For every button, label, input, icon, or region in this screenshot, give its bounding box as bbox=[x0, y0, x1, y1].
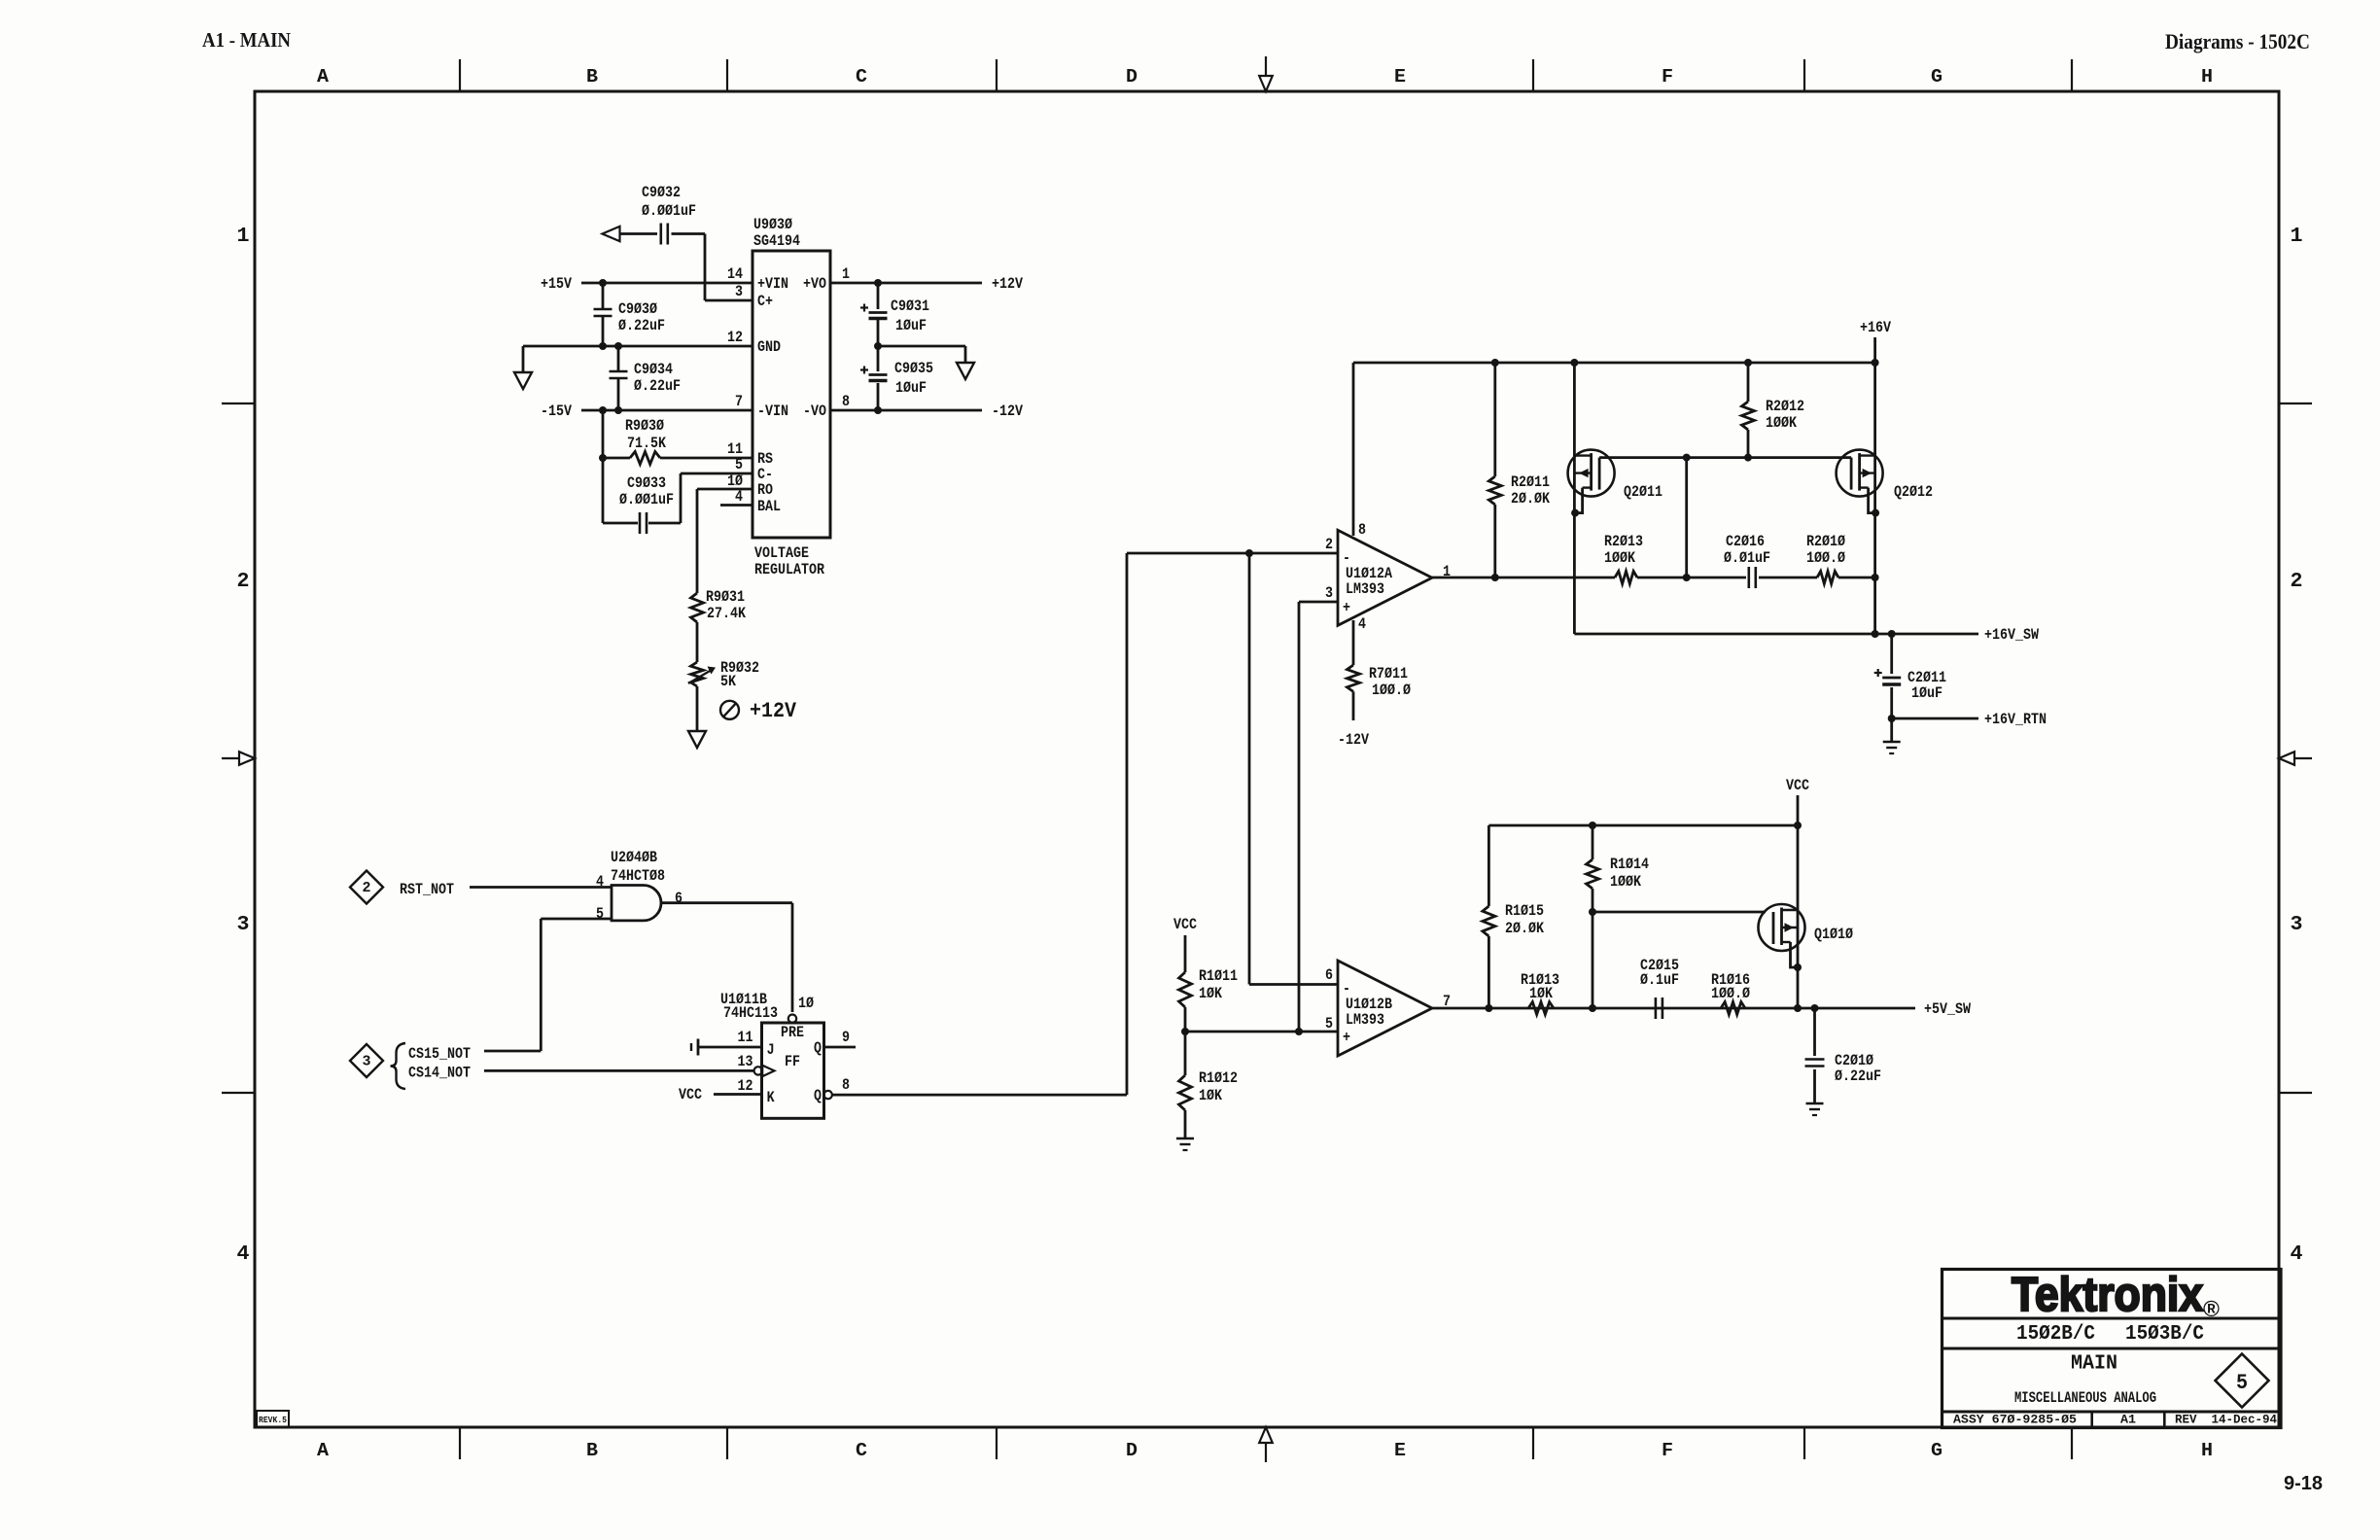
svg-text:1ØØ.Ø: 1ØØ.Ø bbox=[1711, 985, 1750, 1002]
node GND / C9030 bbox=[599, 342, 607, 350]
off-sheet diamond 2 bbox=[350, 871, 383, 904]
wire +5V top rail bbox=[1488, 825, 1798, 906]
svg-text:5: 5 bbox=[1325, 1015, 1333, 1032]
flip-flop U1011B 74HC113 bbox=[720, 991, 824, 1118]
svg-text:A: A bbox=[317, 1440, 330, 1461]
svg-text:-VIN: -VIN bbox=[757, 402, 788, 420]
fold arrow bottom bbox=[1259, 1427, 1273, 1462]
svg-text:8: 8 bbox=[1358, 521, 1366, 539]
capacitor C2010 0.22uF bbox=[1805, 1008, 1882, 1103]
comparator U1012B LM393 bbox=[1338, 961, 1432, 1056]
node gate R1014 bbox=[1589, 908, 1596, 916]
and gate U2040B 74HCT08 bbox=[611, 849, 665, 921]
svg-text:Ø.22uF: Ø.22uF bbox=[1835, 1067, 1881, 1085]
svg-text:Q2Ø11: Q2Ø11 bbox=[1624, 483, 1662, 501]
sheet number diamond 5 bbox=[2216, 1354, 2269, 1408]
svg-text:-: - bbox=[1343, 549, 1350, 567]
wire BAL stub bbox=[720, 504, 752, 507]
svg-text:9-18: 9-18 bbox=[2284, 1473, 2323, 1494]
resistor R1013 10K bbox=[1521, 971, 1559, 1015]
svg-text:-15V: -15V bbox=[541, 402, 572, 420]
svg-text:C: C bbox=[856, 1440, 867, 1461]
svg-text:+12V: +12V bbox=[992, 275, 1023, 293]
capacitor C9031 10uF electrolytic bbox=[860, 283, 929, 346]
svg-text:REVK.5: REVK.5 bbox=[259, 1416, 287, 1425]
node rail Q1010 bbox=[1794, 1004, 1802, 1012]
Tektronix logo bbox=[2012, 1269, 2220, 1321]
svg-text:D: D bbox=[1126, 1440, 1137, 1461]
ground symbol right bbox=[957, 363, 974, 379]
svg-text:13: 13 bbox=[738, 1053, 753, 1070]
svg-text:-12V: -12V bbox=[992, 402, 1023, 420]
svg-text:Diagrams - 1502C: Diagrams - 1502C bbox=[2165, 29, 2310, 53]
svg-text:1ØØK: 1ØØK bbox=[1604, 549, 1635, 567]
svg-text:J: J bbox=[767, 1041, 775, 1059]
fold arrow top bbox=[1259, 56, 1273, 91]
resistor R9031 27.4K bbox=[691, 588, 747, 662]
svg-text:C2Ø16: C2Ø16 bbox=[1726, 533, 1765, 550]
ground symbol left bbox=[514, 372, 532, 389]
svg-text:A1 - MAIN: A1 - MAIN bbox=[202, 28, 291, 52]
svg-text:1ØuF: 1ØuF bbox=[895, 379, 927, 397]
svg-text:2Ø.ØK: 2Ø.ØK bbox=[1505, 920, 1544, 937]
node +16V_SW / C2011 bbox=[1888, 630, 1896, 638]
svg-text:1: 1 bbox=[2291, 226, 2303, 248]
net CS14_NOT bbox=[408, 1065, 754, 1082]
svg-text:+16V_RTN: +16V_RTN bbox=[1984, 711, 2047, 728]
capacitor C9034 0.22uF bbox=[610, 346, 682, 410]
svg-text:2: 2 bbox=[1325, 536, 1333, 553]
net -15V bbox=[541, 402, 752, 420]
node rail R1015 bbox=[1485, 1004, 1492, 1012]
svg-text:3: 3 bbox=[1325, 584, 1333, 602]
potentiometer R9032 5K bbox=[688, 659, 759, 731]
svg-text:Ø.ØØ1uF: Ø.ØØ1uF bbox=[642, 202, 696, 220]
svg-text:R1Ø14: R1Ø14 bbox=[1610, 856, 1649, 873]
resistor R9030 71.5K bbox=[625, 417, 666, 465]
wire Q2012 vertical bbox=[1873, 363, 1876, 634]
signal ground below R1012 bbox=[1176, 1137, 1194, 1140]
svg-text:Q2Ø12: Q2Ø12 bbox=[1894, 483, 1933, 501]
svg-text:Ø.ØØ1uF: Ø.ØØ1uF bbox=[619, 491, 674, 508]
net +15V bbox=[541, 275, 752, 293]
capacitor C9035 10uF electrolytic bbox=[860, 346, 933, 410]
svg-text:VCC: VCC bbox=[679, 1086, 702, 1103]
node output riser bbox=[1683, 574, 1691, 581]
clock bubble bbox=[754, 1067, 762, 1074]
svg-text:+16V: +16V bbox=[1860, 319, 1891, 336]
wire Q2011 drain-source vertical bbox=[1573, 363, 1576, 634]
svg-text:K: K bbox=[767, 1089, 775, 1106]
svg-text:R9Ø31: R9Ø31 bbox=[706, 588, 745, 606]
wire gate Q1010 bbox=[1592, 911, 1766, 914]
svg-text:R1Ø15: R1Ø15 bbox=[1505, 902, 1544, 920]
capacitor C2016 0.01uF bbox=[1724, 533, 1817, 588]
wire GND rail left bbox=[523, 346, 752, 372]
svg-text:G: G bbox=[1931, 66, 1942, 87]
svg-text:C9Ø35: C9Ø35 bbox=[894, 360, 933, 377]
node -12V / C9035 bbox=[874, 406, 882, 414]
svg-text:1ØØK: 1ØØK bbox=[1610, 873, 1641, 891]
svg-text:-: - bbox=[1343, 980, 1350, 997]
svg-text:6: 6 bbox=[675, 890, 682, 907]
svg-text:+: + bbox=[1343, 1029, 1350, 1046]
wire divider to plus input U1012B bbox=[1185, 1031, 1338, 1033]
svg-text:1ØØ.Ø: 1ØØ.Ø bbox=[1372, 682, 1411, 699]
transistor Q2012 bbox=[1837, 450, 1933, 517]
svg-text:MAIN: MAIN bbox=[2071, 1353, 2117, 1376]
svg-text:R7Ø11: R7Ø11 bbox=[1369, 665, 1408, 682]
svg-text:R9Ø3Ø: R9Ø3Ø bbox=[625, 417, 664, 435]
resistor R1014 100K bbox=[1587, 825, 1650, 1008]
resistor R2011 20.0K bbox=[1488, 363, 1550, 577]
wire Q output pin 9 bbox=[824, 1046, 857, 1049]
capacitor C9033 0.001uF bbox=[603, 473, 752, 534]
svg-text:27.4K: 27.4K bbox=[707, 605, 746, 622]
logic high symbol at J input bbox=[691, 1039, 762, 1056]
svg-text:R2Ø12: R2Ø12 bbox=[1766, 398, 1804, 415]
svg-text:A: A bbox=[317, 66, 330, 87]
svg-text:15Ø2B/C: 15Ø2B/C bbox=[2016, 1323, 2095, 1346]
svg-text:4: 4 bbox=[596, 873, 604, 891]
off-sheet diamond 3 bbox=[350, 1044, 383, 1077]
resistor R7011 100.0 bbox=[1347, 665, 1412, 720]
brace for CS nets bbox=[391, 1043, 406, 1089]
net VCC at K input bbox=[679, 1086, 762, 1103]
resistor R2013 100K bbox=[1604, 533, 1746, 584]
node pin2/pin6 branch bbox=[1245, 549, 1253, 557]
svg-text:4: 4 bbox=[735, 488, 743, 506]
svg-text:3: 3 bbox=[237, 914, 250, 936]
svg-text:12: 12 bbox=[727, 329, 743, 346]
svg-text:LM393: LM393 bbox=[1346, 1011, 1384, 1029]
fold arrow right bbox=[2279, 752, 2312, 765]
node +16V_SW / Q2012 bbox=[1872, 630, 1879, 638]
svg-text:Q: Q bbox=[814, 1087, 822, 1104]
svg-text:6: 6 bbox=[1325, 966, 1333, 984]
wire pin 4 to R7011 bbox=[1352, 620, 1355, 665]
svg-text:8: 8 bbox=[842, 1076, 850, 1094]
svg-text:1: 1 bbox=[237, 226, 250, 248]
resistor R2010 100.0 bbox=[1806, 533, 1875, 584]
adjustment symbol +12V bbox=[720, 699, 797, 723]
wire output node U1012A bbox=[1432, 577, 1615, 579]
node top rail R1014 bbox=[1589, 822, 1596, 829]
svg-text:4: 4 bbox=[2291, 1243, 2303, 1266]
net CS15_NOT bbox=[408, 919, 612, 1063]
svg-text:C9Ø32: C9Ø32 bbox=[642, 184, 681, 201]
svg-text:Ø.22uF: Ø.22uF bbox=[634, 377, 681, 395]
svg-text:+VIN: +VIN bbox=[757, 275, 788, 293]
net -12V output bbox=[830, 402, 1023, 420]
signal ground below C2010 bbox=[1806, 1102, 1824, 1105]
svg-text:5: 5 bbox=[735, 456, 743, 473]
svg-text:C9Ø3Ø: C9Ø3Ø bbox=[618, 300, 657, 318]
svg-text:1ØK: 1ØK bbox=[1199, 985, 1222, 1002]
svg-text:B: B bbox=[586, 1440, 598, 1461]
node rail Q2011 bbox=[1570, 359, 1578, 367]
net +16V_SW bbox=[1574, 626, 2039, 644]
svg-text:C: C bbox=[856, 66, 867, 87]
signal ground below C2011 bbox=[1883, 741, 1901, 744]
svg-text:CS14_NOT: CS14_NOT bbox=[408, 1065, 471, 1082]
node RS branch bbox=[599, 454, 607, 462]
wire C2011 to ground bbox=[1890, 718, 1893, 742]
svg-text:E: E bbox=[1394, 66, 1406, 87]
svg-text:MISCELLANEOUS ANALOG: MISCELLANEOUS ANALOG bbox=[2014, 1389, 2156, 1407]
svg-text:+5V_SW: +5V_SW bbox=[1924, 1000, 1971, 1018]
svg-text:12: 12 bbox=[738, 1077, 753, 1095]
svg-text:F: F bbox=[1662, 1440, 1673, 1461]
node divider bbox=[1181, 1028, 1189, 1035]
node rail R1014 bbox=[1589, 1004, 1596, 1012]
wire +16V rail bbox=[1353, 362, 1875, 365]
svg-text:H: H bbox=[2201, 1440, 2213, 1461]
ground symbol below R9032 bbox=[688, 731, 706, 748]
comparator U1012A LM393 bbox=[1338, 530, 1432, 625]
node Q2012/R2010 bbox=[1872, 574, 1879, 581]
svg-text:3: 3 bbox=[735, 283, 743, 300]
svg-text:2: 2 bbox=[237, 571, 250, 593]
svg-text:H: H bbox=[2201, 66, 2213, 87]
transistor Q1010 bbox=[1759, 904, 1854, 971]
row numbers bbox=[237, 226, 2303, 1266]
svg-text:D: D bbox=[1126, 66, 1137, 87]
node rail R2011 bbox=[1491, 359, 1499, 367]
wire C9032 branch with off-sheet arrow bbox=[603, 227, 753, 300]
wire pin 8 to +16V rail bbox=[1352, 363, 1355, 536]
net +16V_RTN bbox=[1892, 711, 2047, 728]
svg-text:74HC113: 74HC113 bbox=[723, 1004, 778, 1022]
capacitor C2015 0.1uF bbox=[1640, 957, 1679, 1019]
svg-text:9: 9 bbox=[842, 1029, 850, 1046]
svg-text:Ø.22uF: Ø.22uF bbox=[618, 317, 665, 334]
net VCC at Q1010 bbox=[1786, 777, 1809, 1008]
wire plus input U1012A bbox=[1299, 602, 1338, 1032]
svg-text:C9Ø34: C9Ø34 bbox=[634, 361, 673, 378]
svg-text:Tektronix: Tektronix bbox=[2012, 1269, 2203, 1321]
svg-text:1ØuF: 1ØuF bbox=[895, 317, 927, 334]
clock arrow bbox=[762, 1066, 774, 1076]
resistor R2012 100K bbox=[1742, 363, 1805, 458]
voltage regulator U9030 SG4194 bbox=[752, 216, 830, 578]
svg-text:5K: 5K bbox=[720, 673, 736, 690]
svg-text:RO: RO bbox=[757, 481, 773, 499]
svg-text:G: G bbox=[1931, 1440, 1942, 1461]
svg-text:4: 4 bbox=[237, 1243, 250, 1266]
wire Qbar to comparator minus input bbox=[832, 553, 1338, 1095]
wire branch to U1012B minus input bbox=[1249, 553, 1338, 985]
svg-text:1ØuF: 1ØuF bbox=[1911, 684, 1942, 702]
fold arrow left bbox=[222, 752, 255, 765]
net VCC divider bbox=[1173, 916, 1197, 972]
svg-text:1ØØK: 1ØØK bbox=[1766, 414, 1797, 432]
node rail R2012 bbox=[1744, 359, 1752, 367]
svg-text:4: 4 bbox=[1358, 615, 1366, 633]
svg-text:1: 1 bbox=[842, 265, 850, 283]
svg-text:+15V: +15V bbox=[541, 275, 572, 293]
node gate / R2012 bbox=[1744, 454, 1752, 462]
title block bbox=[1942, 1270, 2282, 1428]
svg-text:1ØK: 1ØK bbox=[1199, 1087, 1222, 1104]
svg-text:U2Ø4ØB: U2Ø4ØB bbox=[611, 849, 657, 866]
capacitor C9032 0.001uF bbox=[642, 184, 696, 245]
net +16V bbox=[1860, 319, 1891, 363]
node gate / riser bbox=[1683, 454, 1691, 462]
wire RS branch bbox=[603, 410, 752, 523]
node top rail VCC bbox=[1794, 822, 1802, 829]
svg-text:8: 8 bbox=[842, 393, 850, 410]
capacitor C2011 10uF electrolytic bbox=[1874, 634, 1946, 718]
svg-text:7: 7 bbox=[735, 393, 743, 410]
node +16V_RTN / C2011 bbox=[1888, 715, 1896, 722]
wire gate line Q2011-Q2012 bbox=[1599, 456, 1851, 459]
svg-text:U9Ø3Ø: U9Ø3Ø bbox=[753, 216, 792, 233]
transistor Q2011 bbox=[1568, 450, 1662, 517]
resistor R1011 10K bbox=[1179, 967, 1239, 1032]
svg-text:VCC: VCC bbox=[1173, 916, 1197, 933]
svg-text:ASSY 67Ø-9285-Ø5: ASSY 67Ø-9285-Ø5 bbox=[1953, 1413, 2077, 1427]
svg-text:GND: GND bbox=[757, 338, 781, 356]
svg-text:R2Ø13: R2Ø13 bbox=[1604, 533, 1643, 550]
svg-text:REGULATOR: REGULATOR bbox=[754, 561, 824, 578]
node -15V / C9034 bbox=[614, 406, 622, 414]
sheet border frame bbox=[222, 59, 2312, 1459]
svg-text:74HCTØ8: 74HCTØ8 bbox=[611, 867, 665, 885]
svg-text:A1: A1 bbox=[2120, 1413, 2136, 1427]
svg-text:R2Ø1Ø: R2Ø1Ø bbox=[1806, 533, 1845, 550]
node +12V / C9031 bbox=[874, 279, 882, 287]
svg-text:Q: Q bbox=[814, 1039, 822, 1057]
svg-text:Ø.Ø1uF: Ø.Ø1uF bbox=[1724, 549, 1770, 567]
node -15V / branch bbox=[599, 406, 607, 414]
svg-text:3: 3 bbox=[363, 1054, 371, 1070]
svg-text:+12V: +12V bbox=[750, 699, 797, 723]
svg-text:-12V: -12V bbox=[1338, 731, 1369, 749]
svg-text:R2Ø11: R2Ø11 bbox=[1511, 473, 1550, 491]
svg-text:+: + bbox=[1343, 599, 1350, 616]
node C9031/C9035 bbox=[874, 342, 882, 350]
rev box REVK.5 bbox=[257, 1411, 289, 1427]
node +15V / C9030 bbox=[599, 279, 607, 287]
svg-text:R1Ø12: R1Ø12 bbox=[1199, 1069, 1238, 1087]
wire riser gate to output node bbox=[1685, 458, 1688, 577]
node GND / C9034 bbox=[614, 342, 622, 350]
net +5V_SW rail bbox=[1432, 1000, 1971, 1018]
svg-text:3: 3 bbox=[2291, 914, 2303, 936]
node output R2011 bbox=[1491, 574, 1499, 581]
PRE bubble bbox=[788, 1015, 796, 1023]
Qbar bubble bbox=[824, 1091, 832, 1099]
resistor R1012 10K bbox=[1179, 1032, 1239, 1138]
svg-text:15Ø3B/C: 15Ø3B/C bbox=[2125, 1323, 2204, 1346]
svg-text:71.5K: 71.5K bbox=[627, 435, 666, 452]
svg-text:2Ø.ØK: 2Ø.ØK bbox=[1511, 490, 1550, 507]
resistor R1015 20.0K bbox=[1483, 902, 1544, 1008]
svg-text:C9Ø33: C9Ø33 bbox=[627, 474, 666, 492]
svg-text:1ØØ.Ø: 1ØØ.Ø bbox=[1806, 549, 1845, 567]
svg-text:B: B bbox=[586, 66, 598, 87]
wire RO pin branch bbox=[697, 489, 752, 593]
svg-text:®: ® bbox=[2203, 1296, 2220, 1321]
svg-text:VCC: VCC bbox=[1786, 777, 1809, 794]
svg-text:1Ø: 1Ø bbox=[798, 995, 814, 1012]
svg-text:14: 14 bbox=[727, 265, 743, 283]
svg-text:E: E bbox=[1394, 1440, 1406, 1461]
svg-text:+16V_SW: +16V_SW bbox=[1984, 626, 2039, 644]
svg-text:1ØK: 1ØK bbox=[1529, 985, 1553, 1002]
resistor R1016 100.0 bbox=[1711, 971, 1750, 1015]
svg-text:CS15_NOT: CS15_NOT bbox=[408, 1045, 471, 1063]
wire ground rail right bbox=[878, 346, 965, 363]
svg-text:11: 11 bbox=[738, 1029, 753, 1046]
svg-text:REV 14-Dec-94: REV 14-Dec-94 bbox=[2175, 1413, 2277, 1427]
svg-text:Q1Ø1Ø: Q1Ø1Ø bbox=[1814, 926, 1853, 943]
svg-text:2: 2 bbox=[2291, 571, 2303, 593]
svg-text:C+: C+ bbox=[757, 293, 773, 310]
svg-text:-VO: -VO bbox=[803, 402, 826, 420]
node plus riser bbox=[1295, 1028, 1303, 1035]
svg-text:R1Ø11: R1Ø11 bbox=[1199, 967, 1238, 985]
svg-text:2: 2 bbox=[363, 880, 371, 896]
svg-text:Ø.1uF: Ø.1uF bbox=[1640, 971, 1679, 989]
svg-text:PRE: PRE bbox=[781, 1024, 804, 1041]
svg-text:VOLTAGE: VOLTAGE bbox=[754, 544, 809, 562]
svg-text:SG4194: SG4194 bbox=[753, 232, 800, 250]
node rail +16V bbox=[1872, 359, 1879, 367]
wire gate output to U1011B PRE bbox=[661, 903, 792, 1012]
node rail C2010 bbox=[1811, 1004, 1819, 1012]
net RST_NOT bbox=[400, 881, 612, 898]
svg-text:LM393: LM393 bbox=[1346, 580, 1384, 598]
svg-text:+VO: +VO bbox=[803, 275, 826, 293]
svg-text:5: 5 bbox=[2236, 1371, 2248, 1395]
svg-text:C9Ø31: C9Ø31 bbox=[891, 297, 929, 315]
capacitor C9030 0.22uF bbox=[594, 283, 666, 346]
column letters bbox=[317, 66, 2213, 1461]
net +12V output bbox=[830, 275, 1023, 293]
model numbers 1502B/C 1503B/C bbox=[2016, 1323, 2204, 1346]
svg-text:F: F bbox=[1662, 66, 1673, 87]
svg-text:FF: FF bbox=[785, 1053, 800, 1070]
svg-text:RST_NOT: RST_NOT bbox=[400, 881, 454, 898]
svg-text:BAL: BAL bbox=[757, 498, 781, 515]
